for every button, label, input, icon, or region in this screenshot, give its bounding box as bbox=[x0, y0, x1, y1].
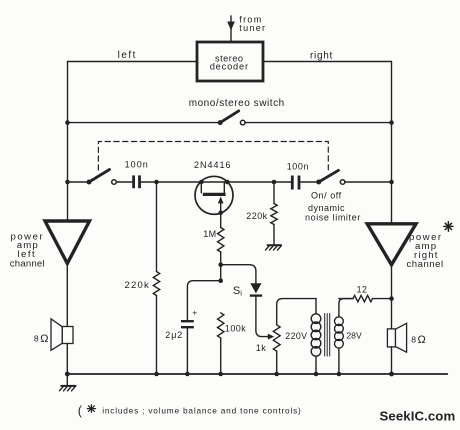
svg-text:channel: channel bbox=[407, 259, 444, 270]
svg-text:220k: 220k bbox=[125, 280, 150, 291]
junction: R3 tap on signal row bbox=[154, 180, 159, 185]
wire: C2 to S2b bbox=[301, 181, 319, 183]
junction: rail/R4 bbox=[218, 372, 223, 377]
svg-text:100n: 100n bbox=[125, 160, 149, 170]
svg-text:mono/stereo switch: mono/stereo switch bbox=[189, 98, 285, 109]
svg-text:8: 8 bbox=[411, 334, 416, 344]
speaker LS2 8 ohm (right) bbox=[387, 323, 425, 352]
svg-text:220V: 220V bbox=[285, 331, 307, 341]
wire: bottom rail bbox=[67, 373, 447, 375]
junction: rail/R3 bbox=[154, 372, 159, 377]
ground below left speaker node bbox=[60, 374, 77, 391]
dashed gang linkage of noise limiter switches bbox=[98, 142, 328, 171]
wire: throw to C1 bbox=[117, 181, 133, 183]
junction: rail/T1 primary bbox=[314, 372, 319, 377]
svg-text:channel: channel bbox=[10, 258, 45, 269]
junction: left bus / signal row bbox=[65, 180, 70, 185]
wire: S2b to right bus bbox=[345, 181, 391, 183]
op-amp A1 power amp left channel bbox=[10, 221, 90, 269]
svg-text:220k: 220k bbox=[246, 211, 267, 221]
capacitor C2 100n bbox=[287, 162, 309, 190]
svg-text:tuner: tuner bbox=[239, 23, 266, 33]
svg-text:1M: 1M bbox=[203, 229, 216, 239]
wire: A2 output to right speaker bbox=[391, 265, 393, 329]
junction: rail/T1 secondary bbox=[337, 372, 342, 377]
svg-text:dynamic: dynamic bbox=[308, 203, 345, 213]
potentiometer R5 1k with wiper from D1 bbox=[256, 299, 316, 374]
diode D1 Si bbox=[221, 265, 262, 331]
junction: gate node to C3 branch bbox=[218, 278, 223, 283]
svg-text:+: + bbox=[192, 307, 197, 317]
junction: gate node to D1 branch bbox=[218, 262, 223, 267]
svg-text:12: 12 bbox=[357, 284, 368, 294]
wire: left speaker to bottom rail bbox=[66, 344, 68, 375]
transistor Q1 2N4416 bbox=[194, 160, 233, 228]
footnote: includes volume balance and tone controls bbox=[78, 404, 302, 418]
svg-text:S: S bbox=[233, 285, 240, 297]
svg-text:decoder: decoder bbox=[210, 62, 249, 72]
stereo decoder U1 bbox=[197, 42, 263, 81]
svg-text:28V: 28V bbox=[346, 331, 362, 341]
svg-text:i: i bbox=[240, 288, 242, 297]
junction: rail/R5 bbox=[274, 372, 279, 377]
wire: right speaker to bottom rail bbox=[391, 347, 393, 374]
wire: right channel output of decoder bbox=[263, 61, 392, 63]
svg-text:2N4416: 2N4416 bbox=[194, 160, 232, 170]
switch S2a noise limiter (left) bbox=[87, 170, 117, 185]
wire: C1 to Q1 drain bbox=[141, 181, 201, 183]
svg-text:2μ2: 2μ2 bbox=[165, 330, 183, 340]
switch S1 mono/stereo bbox=[68, 98, 392, 125]
wire: Q1 source to C2 bbox=[227, 181, 291, 183]
asterisk footnote marker bbox=[444, 222, 453, 232]
svg-text:SeekIC.com: SeekIC.com bbox=[380, 409, 456, 424]
junction: R6 to right output column bbox=[389, 296, 394, 301]
junction: left bus / mono row bbox=[65, 120, 70, 125]
svg-text:right: right bbox=[310, 51, 333, 62]
transformer T1 primary winding 220V bbox=[285, 299, 321, 374]
wire: left channel output of decoder bbox=[68, 61, 198, 63]
svg-text:8: 8 bbox=[34, 334, 39, 344]
resistor R1 220k (to ground) bbox=[246, 182, 277, 245]
svg-text:(: ( bbox=[78, 404, 83, 418]
ground below R1 bbox=[266, 245, 282, 250]
junction: rail/C3 bbox=[185, 372, 190, 377]
svg-text:100k: 100k bbox=[225, 324, 246, 334]
op-amp A2 power amp right channel bbox=[367, 224, 443, 270]
resistor R6 12 (horizontal) bbox=[339, 284, 392, 302]
wire: A1 output to left speaker bbox=[66, 264, 68, 327]
svg-text:left: left bbox=[118, 50, 137, 61]
speaker LS1 8 ohm (left) bbox=[34, 319, 73, 350]
junction: right bus / mono row bbox=[389, 120, 394, 125]
resistor R3 220k (lower left) bbox=[125, 182, 160, 374]
capacitor C1 100n bbox=[125, 160, 149, 189]
svg-text:1k: 1k bbox=[256, 343, 267, 353]
wire: left bus vertical bbox=[67, 62, 69, 222]
junction: rail/right speaker bbox=[389, 372, 394, 377]
svg-text:On/ off: On/ off bbox=[311, 191, 342, 201]
resistor R2 1M (gate) bbox=[203, 228, 224, 281]
from tuner input arrow bbox=[227, 15, 266, 43]
junction: right bus / signal row bbox=[389, 180, 394, 185]
junction: R1 tap on signal row bbox=[272, 180, 277, 185]
switch S2b on/off dynamic noise limiter bbox=[305, 170, 361, 222]
wire: right bus vertical bbox=[391, 62, 393, 224]
resistor R4 100k bbox=[218, 313, 247, 374]
wire: main signal row (left segment) bbox=[68, 181, 90, 183]
capacitor C3 2u2 bbox=[165, 281, 220, 374]
transformer T1 core bbox=[325, 314, 330, 357]
junction: rail/left speaker bbox=[65, 372, 70, 377]
svg-text:Ω: Ω bbox=[40, 333, 48, 345]
svg-text:includes ; volume balance and: includes ; volume balance and tone contr… bbox=[102, 405, 301, 415]
svg-text:Ω: Ω bbox=[418, 334, 426, 346]
svg-text:noise limiter: noise limiter bbox=[305, 212, 361, 222]
svg-text:100n: 100n bbox=[287, 162, 309, 172]
transformer T1 secondary winding 28V bbox=[335, 299, 362, 374]
